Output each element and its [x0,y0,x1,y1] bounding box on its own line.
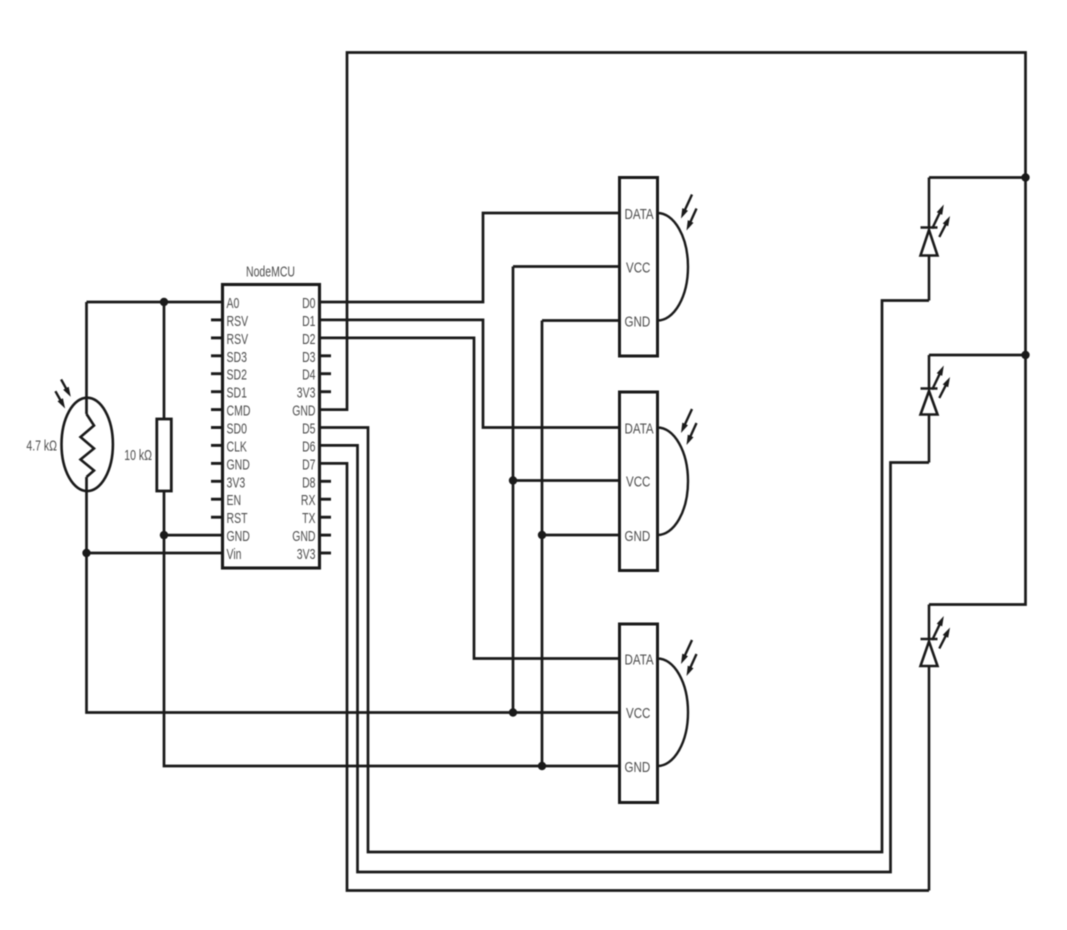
svg-text:4.7 kΩ: 4.7 kΩ [26,438,57,455]
svg-text:3V3: 3V3 [297,546,316,563]
sensor S1 light arrows [681,195,697,231]
junction node LED2 cathode rail [1021,351,1029,359]
sensor module S2 [620,392,688,571]
svg-text:Vin: Vin [227,546,242,563]
svg-text:3V3: 3V3 [297,385,316,402]
svg-text:D7: D7 [302,456,315,473]
svg-text:RSV: RSV [227,331,249,348]
svg-text:EN: EN [227,492,242,509]
junction node A0/R1 [160,298,168,306]
wire GND vertical S1-S2-S3 [541,321,544,767]
wire VCC vertical S1-S2-S3 [512,267,515,713]
svg-text:RST: RST [227,510,248,527]
svg-text:GND: GND [292,403,315,420]
LED D1 [921,178,938,301]
svg-text:D8: D8 [302,474,315,491]
junction node GND S2 [538,531,546,539]
junction node GND/R1 [160,531,168,539]
photoresistor light arrows [55,379,70,408]
svg-text:CMD: CMD [227,403,251,420]
photoresistor LDR 4.7 kOhm [61,398,112,491]
wire D2 to sensor S3 DATA [320,338,620,659]
wire left rail LDR bottom to VCC rail [85,302,88,414]
junction node VCC S2 [509,476,517,484]
wire net A0: LDR top / R1 top to pin A0 [87,301,223,304]
svg-text:A0: A0 [227,295,240,312]
svg-text:GND: GND [625,314,651,331]
svg-text:D0: D0 [302,295,315,312]
svg-text:D4: D4 [302,367,315,384]
wire R1 bottom lead to GND rail [164,491,620,766]
svg-text:DATA: DATA [625,206,654,223]
wire D7 to LED3 anode [320,463,930,890]
junction node VCC S3 [509,708,517,716]
svg-text:VCC: VCC [626,474,651,491]
svg-text:GND: GND [292,528,315,545]
svg-text:RSV: RSV [227,313,249,330]
wire D0 to sensor S1 DATA [320,213,620,302]
NodeMCU pin stubs right [320,356,332,553]
svg-text:NodeMCU: NodeMCU [246,264,295,281]
svg-text:10 kΩ: 10 kΩ [124,447,152,464]
junction node Vin/left rail [82,549,90,557]
wire S1 GND [542,319,620,322]
wire net Vin: Vin pin to left rail [87,552,223,555]
junction node GND S3 [538,762,546,770]
wire GND top rail: NodeMCU GND pin to LED cathode rail [320,53,1026,605]
svg-text:GND: GND [227,456,250,473]
svg-text:RX: RX [301,492,316,509]
resistor R1 10 kOhm [157,419,172,491]
svg-text:SD0: SD0 [227,421,247,438]
sensor module S1 [620,178,688,357]
LED D3 emission arrows [932,616,950,649]
svg-text:SD1: SD1 [227,385,247,402]
LED D3 [921,605,938,891]
svg-text:VCC: VCC [626,705,651,722]
wire R1 top lead [163,302,166,419]
svg-text:D3: D3 [302,349,315,366]
svg-text:SD3: SD3 [227,349,247,366]
svg-text:GND: GND [227,528,250,545]
LED D2 [921,355,938,463]
svg-text:GND: GND [625,759,651,776]
svg-text:CLK: CLK [227,438,247,455]
svg-text:D1: D1 [302,313,315,330]
junction node LED1 cathode rail [1021,173,1029,181]
wire S1 VCC [513,265,620,268]
sensor module S3 [620,624,688,803]
svg-text:D6: D6 [302,438,315,455]
wire S2 GND [542,534,620,537]
svg-text:DATA: DATA [625,421,654,438]
wire LDR bottom lead down to VCC rail corner [87,477,620,713]
sensor S3 light arrows [681,640,697,676]
svg-text:3V3: 3V3 [227,474,246,491]
wire LED2 top to GND rail [929,354,1026,357]
microcontroller U1 NodeMCU box [223,285,320,569]
LED D1 emission arrows [932,205,950,238]
svg-text:D2: D2 [302,331,315,348]
LED D2 emission arrows [932,366,950,399]
svg-text:GND: GND [625,528,651,545]
NodeMCU pin stubs left [211,320,223,517]
svg-text:VCC: VCC [626,260,651,277]
svg-text:D5: D5 [302,421,315,438]
svg-text:TX: TX [302,510,315,527]
svg-text:SD2: SD2 [227,367,247,384]
svg-text:DATA: DATA [625,652,654,669]
sensor S2 light arrows [681,409,697,445]
wire D5 to LED1 anode [320,301,930,853]
wire S2 VCC [513,479,620,482]
wire GND pin14 left to R1 net [164,534,223,537]
wire D6 to LED2 anode [320,445,930,872]
wire D1 to sensor S2 DATA [320,320,620,428]
wire LED1 top to GND rail [929,176,1026,179]
